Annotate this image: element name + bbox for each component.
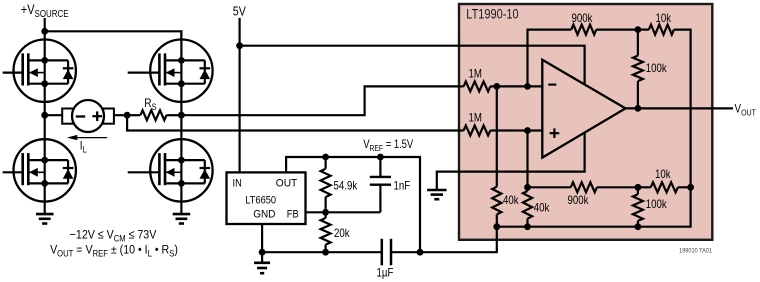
IC U2 LT6650 box	[227, 172, 306, 224]
resistor 900k (top)	[571, 25, 596, 35]
node 5V branch	[236, 42, 243, 49]
svg-text:GND: GND	[253, 208, 275, 221]
svg-text:20k: 20k	[334, 227, 350, 240]
resistor 100k (bottom)	[637, 187, 639, 194]
node Vref/1nF	[377, 154, 384, 161]
label IN	[233, 178, 242, 190]
node motor right junction	[124, 112, 131, 119]
capacitor 1nF	[379, 157, 381, 177]
node 100k/output	[635, 105, 642, 112]
op-amp A1	[542, 60, 625, 158]
resistor 10k (bottom)	[638, 186, 651, 188]
ground below bottom-right NMOS	[173, 213, 191, 216]
label OUT	[276, 177, 298, 190]
label 900k bottom	[568, 194, 590, 207]
svg-text:900k: 900k	[572, 12, 594, 25]
label LT1990-10	[466, 6, 518, 21]
label 40k right	[534, 202, 550, 215]
capacitor 1uF	[381, 239, 384, 265]
svg-text:900k: 900k	[568, 194, 590, 207]
transistor NMOS bottom-right	[150, 139, 212, 201]
label VREF = 1.5V	[363, 138, 413, 153]
label IL	[80, 140, 87, 155]
node GND/ground line	[259, 249, 266, 256]
label VOUT	[735, 102, 757, 117]
wire to -input (from Rs right node)	[181, 86, 463, 115]
node motor left junction	[41, 112, 48, 119]
svg-text:199010 TA01: 199010 TA01	[679, 247, 712, 255]
resistor 20k	[325, 212, 327, 218]
label 1M lower	[469, 112, 482, 125]
wire GND pin down	[261, 224, 263, 263]
node -input/feedback	[524, 83, 531, 90]
wire motor right	[114, 114, 127, 116]
wire +V rail	[45, 31, 182, 39]
label 40k left	[503, 194, 519, 207]
wire Rs right	[167, 114, 182, 116]
node 40k2/900k bottom	[524, 184, 531, 191]
current arrow IL	[77, 137, 108, 139]
node +input/40k	[524, 127, 531, 134]
label 100k top	[646, 62, 668, 75]
label 5V	[233, 4, 246, 19]
IC block LT1990-10 (shaded region)	[459, 4, 712, 240]
svg-text:40k: 40k	[534, 202, 550, 215]
svg-text:OUT: OUT	[276, 177, 298, 190]
label common-mode range formula	[70, 229, 157, 244]
node 20k bottom	[322, 249, 329, 256]
wire 5V vertical	[239, 18, 241, 173]
ground op-amp V-	[427, 189, 447, 192]
node 10k right vertical	[687, 184, 694, 191]
svg-text:1µF: 1µF	[377, 267, 394, 280]
motor M1 (load)	[62, 109, 73, 124]
label 20k	[334, 227, 350, 240]
node +Vsource rail junction	[41, 28, 48, 35]
svg-text:FB: FB	[287, 209, 299, 221]
node FB/54.9k/20k	[322, 209, 329, 216]
wire right bridge leg	[180, 31, 182, 213]
wire 900k to node	[596, 29, 638, 31]
resistor 40k (right, from +input)	[526, 131, 528, 192]
label Vout formula	[50, 244, 178, 259]
label 1uF	[377, 267, 394, 280]
svg-text:5V: 5V	[233, 4, 246, 19]
node Vref/54.9k	[322, 154, 329, 161]
svg-text:IN: IN	[233, 178, 242, 190]
node Rs right junction	[178, 112, 185, 119]
resistor 1M (upper, -input)	[464, 81, 491, 91]
wire Rs left	[127, 114, 140, 116]
wire +Vsource lead	[44, 18, 46, 31]
svg-text:100k: 100k	[646, 198, 668, 211]
wire output	[626, 107, 734, 109]
ground LT6650	[254, 261, 270, 264]
transistor NMOS top-right	[150, 39, 212, 101]
label 10k top	[656, 12, 672, 25]
ground below bottom-left NMOS	[36, 213, 54, 216]
wire 1uF to block bottom rail	[391, 227, 497, 253]
svg-text:LT1990-10: LT1990-10	[466, 6, 518, 21]
wire motor left	[45, 114, 63, 116]
transistor NMOS top-left	[14, 39, 76, 101]
label RS	[144, 97, 157, 112]
wire left bridge leg	[44, 31, 46, 213]
wire 10k right / right vertical	[497, 30, 691, 227]
wire +input line	[490, 129, 542, 131]
svg-text:40k: 40k	[503, 194, 519, 207]
label FB	[287, 209, 299, 221]
resistor RS	[140, 110, 166, 120]
svg-text:1M: 1M	[469, 68, 482, 81]
resistor 1M (lower, +input)	[464, 126, 491, 136]
transistor NMOS bottom-left	[14, 139, 76, 201]
label 900k top	[572, 12, 594, 25]
node Vref/1uF junction	[417, 249, 424, 256]
label 100k bottom	[646, 198, 668, 211]
svg-text:10k: 10k	[656, 12, 672, 25]
wire -input line	[490, 85, 542, 87]
node 900k/10k/100k top	[635, 26, 642, 33]
wire FB line	[306, 211, 381, 213]
svg-text:1nF: 1nF	[394, 180, 411, 193]
svg-text:1M: 1M	[469, 112, 482, 125]
node 40k1 bottom	[493, 223, 500, 230]
label 1M upper	[469, 68, 482, 81]
label GND	[253, 208, 275, 221]
svg-text:10k: 10k	[655, 168, 671, 181]
wire 5V to op-amp V+	[240, 46, 585, 190]
resistor 54.9k	[325, 157, 327, 169]
wire node to 10k	[638, 29, 649, 31]
wire to +input (from motor right node)	[127, 115, 464, 130]
wire feedback to 900k	[528, 30, 572, 87]
wire OUT pin to Vref line	[286, 157, 420, 252]
node -input/40k	[493, 83, 500, 90]
svg-text:LT6650: LT6650	[245, 195, 276, 207]
label figure tag 199010 TA01	[679, 247, 712, 255]
resistor 100k (top)	[637, 30, 639, 56]
label 54.9k	[334, 180, 358, 193]
label 10k bottom	[655, 168, 671, 181]
node 100k bottom rail	[635, 223, 642, 230]
resistor 10k (top)	[649, 25, 674, 35]
resistor 40k (left, from -input)	[496, 86, 498, 186]
svg-text:100k: 100k	[646, 62, 668, 75]
svg-text:54.9k: 54.9k	[334, 180, 358, 193]
node 900k/100k/10k bottom	[635, 184, 642, 191]
wire ground line to 1uF	[262, 251, 382, 253]
node 40k2 bottom rail	[524, 223, 531, 230]
svg-text:−12V ≤ VCM ≤ 73V: −12V ≤ VCM ≤ 73V	[70, 229, 157, 244]
resistor 900k (bottom)	[528, 186, 571, 188]
label +Vsource	[21, 2, 69, 19]
label LT6650	[245, 195, 276, 207]
label 1nF	[394, 180, 411, 193]
